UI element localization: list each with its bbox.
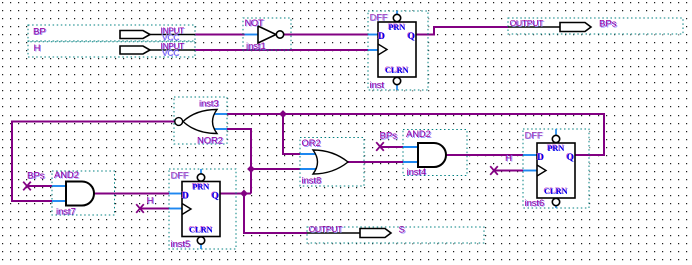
output pin S: [307, 227, 484, 243]
wire NOT output to DFF inst D: [284, 34, 368, 36]
svg-text:H: H: [34, 43, 41, 54]
pin stub NOT input: [245, 34, 260, 36]
svg-text:NOR2: NOR2: [197, 136, 223, 146]
svg-text:Q: Q: [212, 191, 219, 201]
wire AND2 inst7 output to DFF inst5 D: [94, 193, 169, 195]
wire DFF inst6 Q feedback to NOR2 upper input: [227, 114, 604, 155]
svg-text:inst7: inst7: [56, 207, 76, 217]
pin stub AND2 inst4 inputs: [403, 146, 420, 148]
wire OR2 output to AND2 inst4 lower input: [348, 161, 403, 163]
input pin H: [28, 41, 195, 57]
svg-text:OUTPUT: OUTPUT: [510, 18, 545, 28]
svg-text:BPs: BPs: [380, 131, 398, 142]
svg-text:CLRN: CLRN: [385, 66, 409, 75]
dangling X at inst5 clock: [136, 204, 144, 213]
nor gate inst3 (mirrored): [174, 97, 227, 144]
svg-text:D: D: [182, 191, 189, 201]
wire junction drop to OR2 upper input: [283, 114, 300, 154]
svg-text:AND2: AND2: [54, 170, 79, 180]
symbol white backgrounds: [28, 25, 196, 42]
svg-text:inst: inst: [370, 80, 385, 90]
svg-text:AND2: AND2: [406, 129, 431, 139]
svg-text:inst4: inst4: [407, 167, 427, 177]
wire NOR2 output left rail to AND2 inst7 lower input: [12, 122, 176, 202]
flip-flop inst6 DFF: [523, 129, 589, 208]
pin stub DFF inst5 D and clock: [169, 193, 182, 195]
svg-text:BPs: BPs: [599, 19, 617, 30]
svg-text:NOT: NOT: [245, 18, 264, 28]
not gate inst1: [243, 18, 291, 50]
or gate inst8: [300, 138, 364, 187]
svg-text:inst3: inst3: [199, 98, 219, 108]
wire H stub to DFF inst5 clock: [140, 208, 169, 210]
flip-flop DFF inst: [368, 11, 428, 90]
wire H to DFF inst clock: [195, 49, 368, 51]
pin stub OR2 inputs: [300, 153, 320, 155]
svg-text:BP: BP: [33, 27, 46, 38]
wire BPs stub to AND2 inst4 upper input: [380, 146, 403, 148]
pin stub NOR2 inputs: [212, 113, 227, 115]
svg-text:VCC: VCC: [162, 49, 179, 58]
svg-text:DFF: DFF: [370, 13, 388, 23]
wire AND2 inst4 output to DFF inst6 D: [446, 154, 523, 156]
svg-text:D: D: [378, 32, 385, 42]
wire BP to NOT input: [195, 34, 245, 36]
dangling X at inst4 input: [376, 142, 384, 151]
wire BPs stub to AND2 inst7 upper input: [27, 185, 52, 187]
wire DFF inst5 Q to hub: [220, 193, 251, 195]
svg-text:DFF: DFF: [171, 171, 189, 181]
svg-text:Q: Q: [567, 153, 574, 163]
shared selection edge between BP and H boxes: [28, 41, 195, 43]
wire hub down to OUTPUT S: [244, 194, 307, 234]
svg-text:H: H: [147, 196, 154, 207]
svg-text:inst8: inst8: [302, 175, 322, 185]
and gate inst4: [403, 130, 467, 176]
svg-text:S: S: [399, 225, 405, 236]
svg-text:OUTPUT: OUTPUT: [309, 224, 344, 234]
svg-text:D: D: [537, 153, 544, 163]
input pin BP: [28, 25, 195, 41]
wire hub to OR2 lower input: [251, 168, 300, 170]
svg-text:CLRN: CLRN: [544, 187, 568, 196]
svg-text:OR2: OR2: [302, 138, 321, 148]
junction node at NOR2 rail and OR2 drop: [280, 111, 286, 117]
output pin BPs: [508, 18, 683, 34]
pin stub DFF inst D: [368, 34, 378, 36]
pin stub DFF inst6 D and clock: [523, 154, 537, 156]
pin stub AND2 inst7 inputs: [52, 185, 68, 187]
svg-text:CLRN: CLRN: [189, 225, 213, 234]
svg-text:inst1: inst1: [246, 41, 266, 51]
wire DFF inst Q to OUTPUT BPs: [416, 27, 508, 35]
svg-text:DFF: DFF: [525, 131, 543, 141]
svg-text:H: H: [505, 153, 512, 164]
svg-text:PRN: PRN: [547, 144, 564, 153]
dangling X at inst7 input: [23, 182, 31, 191]
flip-flop inst5 DFF: [169, 169, 236, 249]
wire NOR2 lower input to hub vertical: [227, 129, 251, 194]
pin stub DFF inst clock: [368, 49, 378, 51]
and gate inst7: [52, 171, 115, 215]
junction node at hub dot1: [248, 166, 254, 172]
svg-text:PRN: PRN: [388, 23, 405, 32]
svg-text:inst5: inst5: [171, 239, 191, 249]
svg-text:BPs: BPs: [27, 170, 45, 181]
svg-text:Q: Q: [408, 32, 415, 42]
junction node at hub dot2: [241, 190, 247, 196]
svg-text:inst6: inst6: [525, 198, 545, 208]
svg-text:PRN: PRN: [192, 182, 209, 191]
dangling X at inst6 clock: [490, 166, 498, 175]
wire H stub to DFF inst6 clock: [494, 170, 523, 172]
